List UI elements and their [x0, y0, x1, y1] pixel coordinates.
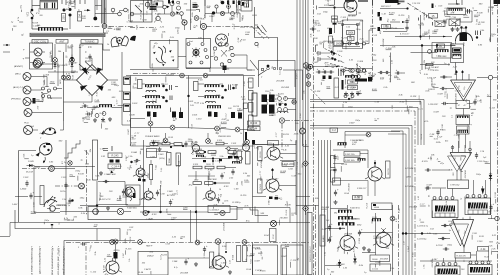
- svg-text:R.54: R.54: [147, 86, 152, 89]
- xfmr arcs: [277, 111, 288, 113]
- dark bracket: [380, 17, 382, 21]
- dash-dot link: [85, 26, 133, 28]
- svg-text:C.68: C.68: [244, 81, 246, 86]
- open box: [345, 132, 400, 149]
- label: [84, 119, 91, 121]
- input lines U2b: [405, 185, 446, 190]
- terminal: [23, 48, 30, 61]
- svg-text:R.215: R.215: [283, 134, 290, 136]
- svg-text:2.2k: 2.2k: [104, 7, 106, 13]
- xfmr winding dark2: [262, 105, 275, 114]
- value labels: [11, 4, 23, 31]
- dark tick: [378, 12, 381, 31]
- svg-text:1.33μF: 1.33μF: [408, 245, 410, 252]
- svg-text:R.54: R.54: [117, 197, 122, 200]
- wire: [325, 233, 393, 266]
- wire: [211, 55, 253, 70]
- svg-text:2.2k: 2.2k: [321, 229, 327, 231]
- gnd: [93, 117, 112, 122]
- gnd: [158, 147, 162, 151]
- antenna connector box J1: [40, 1, 58, 10]
- wire: [333, 150, 368, 168]
- svg-text:150p: 150p: [371, 55, 377, 57]
- comb: [435, 50, 449, 53]
- value labels: [192, 11, 251, 34]
- label: [382, 13, 387, 16]
- top wire: [32, 0, 102, 6]
- bracket: [171, 108, 181, 113]
- label: [453, 156, 457, 161]
- jack J2: [33, 60, 44, 68]
- T-block L box: [432, 200, 458, 218]
- value labels: [142, 243, 189, 274]
- vert boundary: [252, 140, 254, 215]
- svg-text:R.108: R.108: [495, 191, 497, 198]
- label: [350, 139, 364, 146]
- wire: [178, 56, 186, 58]
- svg-text:C.304: C.304: [407, 14, 410, 21]
- wires above U3: [457, 217, 470, 220]
- label col2: [431, 259, 466, 263]
- svg-text:C.510: C.510: [130, 139, 136, 141]
- svg-text:R.54: R.54: [344, 94, 349, 97]
- transistor Q401: [264, 144, 283, 160]
- svg-text:TONE: TONE: [169, 157, 171, 163]
- contact row: [348, 42, 366, 45]
- value labels: [276, 132, 299, 145]
- box: [333, 178, 341, 185]
- cap: [29, 192, 34, 200]
- value labels: [442, 91, 491, 119]
- svg-text:150p: 150p: [38, 101, 44, 103]
- wire: [34, 64, 58, 87]
- svg-text:C.77: C.77: [390, 77, 392, 82]
- svg-text:ANT: ANT: [59, 39, 65, 43]
- label: [128, 164, 132, 171]
- label boxes: [237, 246, 247, 262]
- svg-text:0.047: 0.047: [268, 199, 271, 205]
- box: [370, 255, 390, 262]
- label: [458, 104, 468, 107]
- svg-text:R.215: R.215: [241, 195, 248, 197]
- svg-text:6MΩ: 6MΩ: [357, 225, 362, 227]
- svg-text:150p: 150p: [476, 174, 482, 176]
- wire: [374, 160, 376, 196]
- svg-text:C.68: C.68: [111, 82, 116, 84]
- trimmer dashed: [325, 49, 344, 57]
- label: [324, 62, 330, 65]
- svg-text:2.2k: 2.2k: [105, 257, 107, 263]
- value labels: [355, 98, 423, 122]
- contact: [93, 209, 99, 215]
- value labels: [149, 216, 251, 238]
- svg-text:2.2k: 2.2k: [159, 26, 165, 28]
- label: [61, 177, 67, 179]
- wires above U1: [455, 70, 469, 80]
- junction: [70, 58, 75, 63]
- long wire y75: [126, 75, 255, 77]
- cap: [220, 169, 234, 179]
- note text: [51, 246, 55, 280]
- label: [337, 145, 347, 147]
- svg-text:R.302 220k: R.302 220k: [345, 154, 355, 156]
- label col: [428, 195, 431, 207]
- svg-text:• All resistance values in ohm: • All resistance values in ohm: [30, 246, 34, 275]
- svg-text:150p: 150p: [355, 120, 361, 122]
- svg-text:R.54: R.54: [267, 99, 272, 102]
- svg-text:PUSHER BAND: PUSHER BAND: [145, 135, 160, 138]
- svg-text:1970s: 1970s: [60, 191, 65, 193]
- svg-text:R.108: R.108: [274, 95, 281, 97]
- value labels: [31, 208, 84, 225]
- wire: [213, 168, 236, 184]
- svg-text:C.77: C.77: [467, 125, 472, 127]
- label: [12, 203, 18, 206]
- value labels: [357, 55, 377, 79]
- svg-text:C.77: C.77: [375, 119, 380, 121]
- svg-text:(101k): (101k): [159, 158, 165, 160]
- IFT core 1: [145, 85, 160, 88]
- svg-text:R.33: R.33: [328, 0, 330, 5]
- input U3 1: [417, 224, 452, 228]
- svg-text:0.047: 0.047: [209, 15, 215, 18]
- diag dash-dot: [408, 3, 445, 27]
- capacitor C1: [44, 3, 47, 9]
- wire: [69, 16, 71, 29]
- switch contacts: [41, 87, 57, 98]
- note text: [38, 246, 42, 274]
- jack J5: [23, 98, 34, 106]
- svg-text:R.33: R.33: [168, 137, 173, 139]
- wire: [98, 205, 128, 211]
- label: [457, 228, 467, 234]
- osc line: [190, 0, 192, 30]
- value labels: [108, 82, 120, 99]
- svg-text:2SC458: 2SC458: [260, 152, 262, 159]
- svg-text:R.54: R.54: [249, 259, 252, 264]
- contact: [163, 5, 167, 9]
- box2: [370, 264, 391, 271]
- variable capacitor VC2: [30, 48, 45, 56]
- svg-text:R.33: R.33: [223, 63, 225, 68]
- label: [85, 58, 92, 60]
- svg-text:220: 220: [62, 15, 66, 20]
- vert wires: [191, 210, 197, 242]
- switch wafer: [156, 46, 166, 63]
- wire: [55, 168, 76, 170]
- bus y125: [310, 126, 412, 129]
- R162 box: [455, 253, 471, 259]
- op-amp U3 triangle: [450, 220, 474, 248]
- svg-text:R.215: R.215: [341, 164, 348, 166]
- res comb3: [372, 219, 381, 222]
- mains vert: [63, 52, 65, 121]
- rot labels: [204, 252, 248, 262]
- vert wire: [389, 53, 391, 83]
- junction X big: [117, 208, 123, 214]
- IFT core 2: [145, 96, 160, 99]
- value labels: [100, 149, 133, 172]
- cap: [489, 203, 494, 211]
- value labels: [455, 20, 466, 31]
- svg-text:2.2k: 2.2k: [169, 37, 175, 39]
- grommet2: [79, 183, 85, 189]
- svg-text:R.108: R.108: [32, 23, 39, 25]
- svg-text:C?M 10Ω: C?M 10Ω: [450, 185, 460, 187]
- svg-text:• INPUT and volume control: • INPUT and volume control: [57, 246, 61, 275]
- label: [352, 142, 358, 144]
- svg-text:R.215: R.215: [161, 255, 168, 257]
- value labels: [382, 79, 403, 96]
- vert label: [258, 147, 263, 161]
- comb: [338, 143, 347, 146]
- value labels: [94, 225, 135, 235]
- svg-text:M=1.5R: M=1.5R: [26, 172, 34, 174]
- wire: [186, 69, 210, 79]
- wire: [31, 18, 33, 29]
- svg-text:4.7k Ω 4.7: 4.7k Ω 4.7: [400, 33, 410, 36]
- svg-text:R.33: R.33: [400, 102, 405, 104]
- svg-text:R.54: R.54: [100, 112, 105, 115]
- svg-text:150p: 150p: [447, 245, 453, 247]
- svg-text:C.68: C.68: [422, 34, 427, 36]
- wire: [203, 30, 205, 43]
- value labels: [424, 59, 440, 76]
- svg-text:(PHONO): (PHONO): [11, 99, 21, 101]
- cap dark: [242, 2, 244, 6]
- svg-text:220k: 220k: [192, 11, 194, 18]
- wire: [198, 84, 204, 97]
- value labels: [321, 202, 395, 274]
- junction: [225, 147, 238, 150]
- value labels: [320, 40, 337, 67]
- transistor Q502: [209, 253, 229, 270]
- T-block R2 box: [468, 265, 492, 276]
- wire: [457, 171, 461, 181]
- wire: [55, 44, 72, 58]
- svg-text:240V: 240V: [59, 79, 62, 85]
- label: [346, 27, 351, 29]
- value labels: [108, 4, 148, 31]
- svg-text:220k: 220k: [151, 29, 158, 31]
- value labels: [479, 235, 497, 254]
- squiggle: [129, 189, 136, 201]
- res comb2: [338, 223, 362, 227]
- switch lever: [258, 70, 267, 79]
- svg-text:R.215: R.215: [341, 38, 348, 40]
- corner bundle: [409, 100, 424, 276]
- svg-text:1-45V: 1-45V: [12, 203, 18, 206]
- top box: [154, 0, 163, 7]
- svg-text:C.77: C.77: [418, 109, 423, 111]
- svg-text:C.68: C.68: [234, 189, 239, 191]
- svg-text:• All measurements made with: • All measurements made with: [51, 246, 55, 275]
- diode D1: [54, 61, 57, 69]
- bracket: [316, 45, 319, 52]
- T-block R2 contacts: [469, 261, 490, 264]
- dark blob: [355, 77, 372, 82]
- value labels: [380, 38, 399, 79]
- label box: [348, 80, 358, 84]
- svg-text:2SC458: 2SC458: [41, 91, 44, 101]
- svg-text:D.501: D.501: [188, 101, 193, 103]
- label: [62, 160, 64, 164]
- svg-text:100Ω: 100Ω: [206, 164, 211, 166]
- svg-text:2.2k: 2.2k: [171, 236, 177, 238]
- label box: [281, 162, 295, 167]
- T-block R box: [465, 198, 491, 215]
- label: [399, 195, 420, 213]
- svg-text:2SC458: 2SC458: [56, 64, 66, 67]
- svg-text:1.5k: 1.5k: [496, 243, 500, 245]
- wires below U1: [459, 101, 466, 149]
- staircase: [64, 140, 80, 158]
- svg-text:R.33: R.33: [194, 103, 199, 105]
- label: [457, 84, 467, 90]
- svg-text:2SC458: 2SC458: [348, 183, 351, 193]
- wire: [229, 0, 239, 13]
- label box: [62, 14, 66, 22]
- svg-text:C.68: C.68: [100, 149, 105, 151]
- svg-text:C.68: C.68: [194, 6, 199, 8]
- svg-text:150p: 150p: [250, 253, 256, 255]
- AGC box: [80, 44, 103, 70]
- label: [88, 244, 93, 252]
- value labels: [267, 97, 278, 116]
- value labels: [299, 61, 332, 118]
- right dashdot: [497, 0, 499, 275]
- svg-text:0.1: 0.1: [414, 9, 417, 11]
- coil 2: [146, 101, 156, 103]
- wire: [98, 180, 125, 190]
- wire: [146, 144, 174, 147]
- svg-text:MΩ: MΩ: [392, 20, 396, 22]
- svg-text:R.215: R.215: [155, 14, 162, 16]
- wire: [19, 151, 37, 223]
- svg-text:C.77: C.77: [446, 87, 448, 92]
- wire: [85, 246, 87, 275]
- svg-text:2SC458: 2SC458: [408, 206, 418, 209]
- label: [58, 61, 60, 66]
- dark feet: [147, 112, 183, 119]
- wire: [348, 11, 361, 16]
- label: [188, 41, 193, 43]
- svg-text:R.33: R.33: [484, 256, 489, 258]
- jack J4: [23, 86, 34, 94]
- wire: [334, 8, 336, 34]
- cap: [64, 182, 67, 188]
- diode D249: [27, 164, 41, 167]
- svg-text:150p: 150p: [50, 82, 56, 84]
- junction: [406, 7, 408, 9]
- svg-text:(AUX) P-1: (AUX) P-1: [13, 86, 24, 89]
- bus box: [88, 207, 237, 220]
- label: [62, 198, 72, 204]
- svg-text:220k: 220k: [178, 0, 185, 1]
- svg-text:0.047: 0.047: [72, 62, 78, 65]
- value labels: [425, 78, 452, 110]
- label: [11, 99, 21, 101]
- svg-text:1: 1: [435, 6, 436, 8]
- junction X in box: [143, 210, 225, 215]
- T-block R top contacts: [466, 195, 487, 198]
- svg-text:R.54: R.54: [264, 234, 269, 237]
- label box: [427, 14, 438, 19]
- diode D101: [70, 55, 73, 63]
- wire: [195, 171, 209, 213]
- vert label: [258, 179, 263, 193]
- svg-text:R.349 39Ω: R.349 39Ω: [127, 207, 137, 210]
- rotary spokes: [192, 48, 200, 58]
- module frame: [212, 13, 240, 22]
- dark bracket: [342, 80, 344, 90]
- wire: [57, 204, 66, 206]
- svg-text:R.345: R.345: [103, 265, 106, 270]
- wire: [296, 70, 303, 146]
- svg-text:0.047: 0.047: [147, 172, 150, 178]
- svg-text:R.108: R.108: [410, 96, 417, 98]
- caps left: [326, 220, 333, 243]
- contact: [344, 95, 354, 101]
- corner dashdot: [414, 111, 416, 275]
- arrow: [84, 9, 91, 11]
- svg-text:(4): (4): [65, 63, 68, 66]
- bracket: [444, 20, 446, 24]
- svg-text:C.112: C.112: [280, 69, 282, 75]
- svg-text:2.2k: 2.2k: [228, 178, 234, 180]
- label: [436, 56, 441, 58]
- label: [334, 207, 360, 215]
- value labels: [320, 206, 377, 226]
- bus junction: [402, 232, 423, 234]
- svg-text:OSC COIL: OSC COIL: [34, 39, 47, 43]
- cap dark: [227, 1, 240, 6]
- value labels: [33, 202, 70, 224]
- wire: [36, 129, 39, 131]
- component stack: [328, 16, 338, 43]
- wire: [60, 211, 131, 213]
- wire: [34, 90, 43, 102]
- value labels: [341, 140, 362, 198]
- input line 1: [427, 75, 452, 79]
- value labels: [104, 7, 148, 30]
- wire 500: [420, 62, 450, 66]
- U1 output box: [456, 101, 470, 109]
- value labels: [50, 45, 85, 72]
- wire: [192, 157, 230, 165]
- svg-text:R.215: R.215: [50, 51, 52, 58]
- value labels: [317, 0, 334, 16]
- svg-text:0.047: 0.047: [434, 111, 440, 114]
- cap pair: [476, 31, 481, 39]
- svg-text:T2: T2: [461, 198, 463, 200]
- gnd: [194, 262, 232, 274]
- svg-text:150p: 150p: [75, 171, 81, 173]
- svg-text:220k: 220k: [241, 180, 243, 187]
- label: [365, 70, 372, 80]
- bracket: [120, 188, 127, 200]
- wire: [340, 70, 349, 72]
- long wire y222: [10, 222, 310, 224]
- bracket: [196, 10, 200, 13]
- svg-text:2SB22: 2SB22: [146, 256, 154, 258]
- svg-text:PRINTED CIRCUIT: PRINTED CIRCUIT: [310, 245, 312, 262]
- input line 2: [428, 87, 454, 91]
- svg-text:C.77: C.77: [420, 204, 425, 206]
- svg-text:TR.101: TR.101: [85, 58, 92, 60]
- contact circle: [111, 8, 115, 13]
- junction X row: [110, 239, 247, 245]
